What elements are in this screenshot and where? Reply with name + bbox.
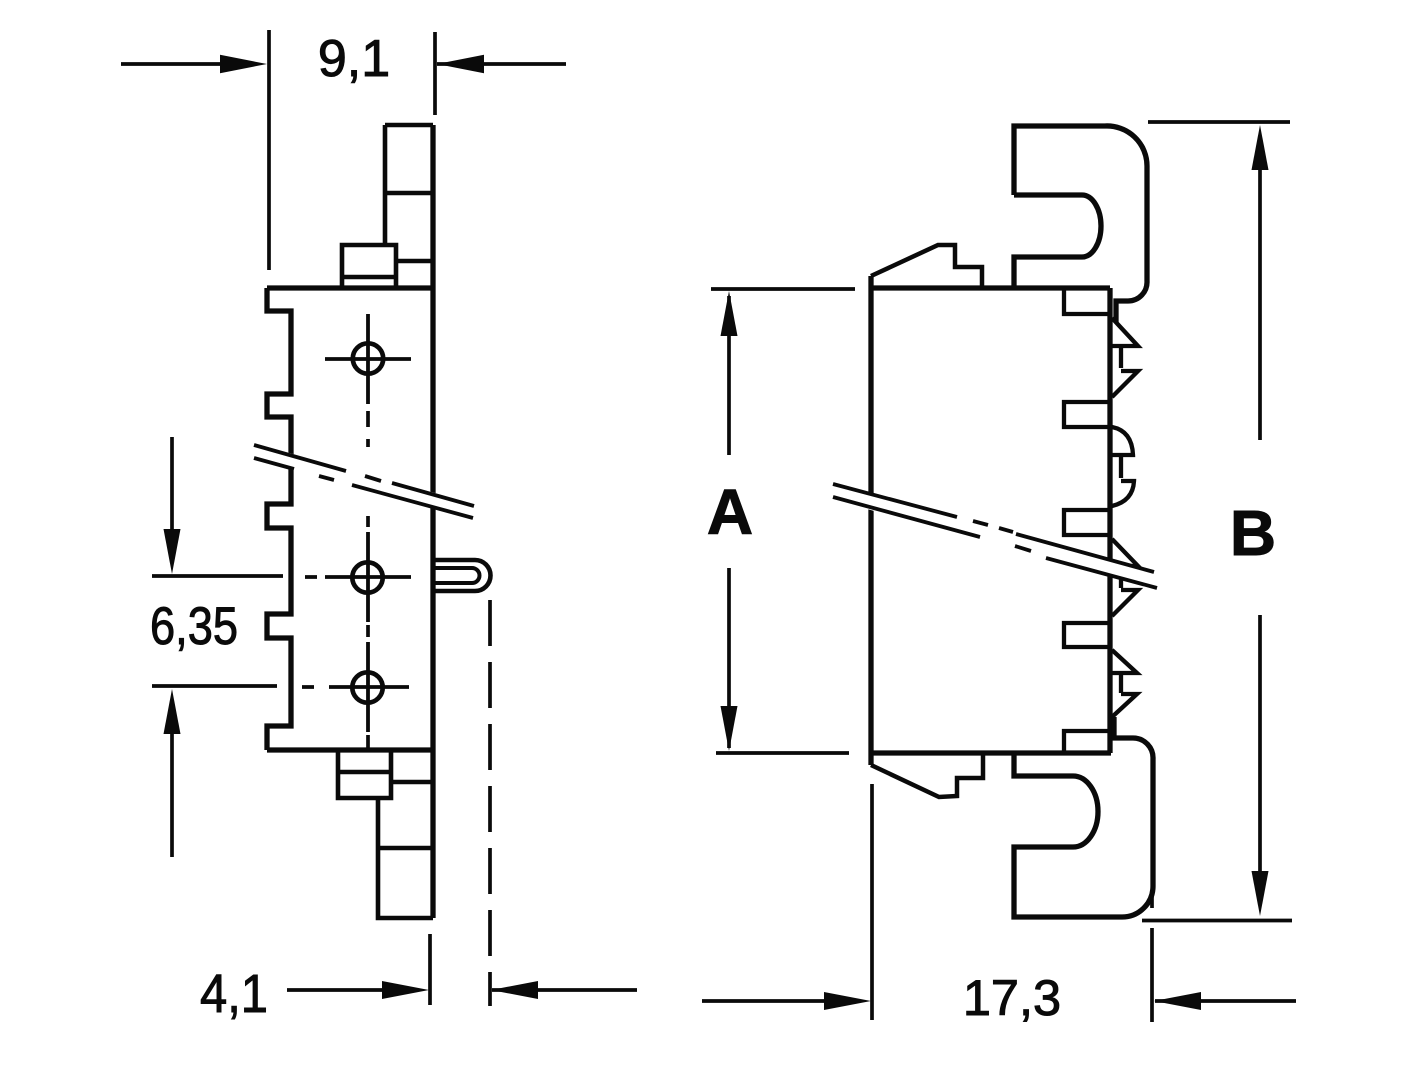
break line 2 (right view) (833, 497, 1157, 588)
left view body outline (267, 125, 433, 918)
right view body (871, 276, 1111, 765)
svg-text:A: A (707, 476, 753, 548)
centre line dashes (366, 411, 370, 748)
serration recess 3 (1064, 510, 1110, 535)
break band (left view) (253, 443, 475, 520)
break line 2 (left view) (254, 458, 473, 518)
serration recess 1 (1064, 288, 1110, 314)
hole H2 (305, 532, 411, 622)
dimension A (711, 289, 855, 753)
svg-text:9,1: 9,1 (318, 30, 390, 88)
dimension B (1142, 122, 1292, 921)
dimension 6,35 (152, 437, 283, 857)
serration recess 5 (1064, 731, 1110, 751)
break line 1 (right view) (833, 484, 1154, 572)
bottom wedge (871, 753, 983, 797)
top wedge (871, 245, 982, 288)
left view bottom tab block (338, 752, 433, 798)
break band (right view) (831, 482, 1159, 590)
solder pin (side) (432, 560, 491, 591)
hole H3 (302, 642, 409, 732)
serration recess 4 (1064, 623, 1110, 647)
break line 1 (left view) (254, 445, 474, 506)
dimension 9,1 (121, 30, 566, 270)
svg-text:6,35: 6,35 (150, 597, 238, 656)
dimension 4,1 (287, 600, 637, 1006)
svg-text:4,1: 4,1 (200, 964, 268, 1024)
serration recess 2 (1064, 402, 1110, 427)
left view top column (385, 125, 433, 245)
tooth pair 4 (straight) (1111, 650, 1137, 739)
tooth pair 2 (curved) (1111, 427, 1134, 506)
left view top tab block (342, 245, 433, 288)
tooth pair 3 (straight, broken) (1111, 539, 1138, 616)
bottom hook (1014, 717, 1153, 917)
svg-text:B: B (1230, 497, 1276, 569)
dimension 17,3 (702, 784, 1296, 1022)
svg-text:17,3: 17,3 (963, 969, 1061, 1026)
top hook (1014, 126, 1147, 322)
tooth pair 1 (straight) (1111, 318, 1138, 397)
left view bottom column (378, 798, 433, 918)
hole H1 (325, 314, 411, 404)
